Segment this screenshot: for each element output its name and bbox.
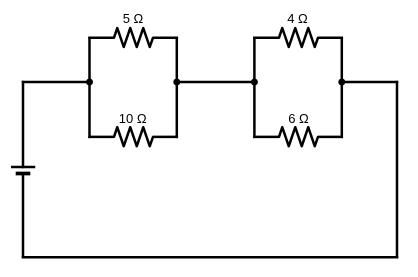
svg-text:4 Ω: 4 Ω (287, 11, 308, 26)
svg-text:10 Ω: 10 Ω (119, 111, 147, 126)
svg-text:6 Ω: 6 Ω (288, 111, 309, 126)
svg-text:5 Ω: 5 Ω (123, 11, 144, 26)
